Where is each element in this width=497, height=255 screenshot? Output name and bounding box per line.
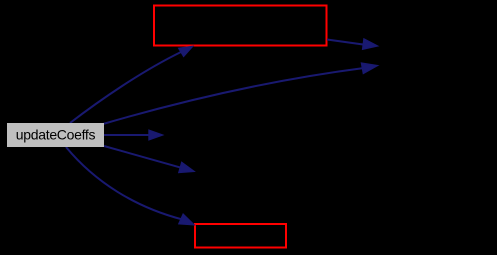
node: bottom red box (label hidden on black) (195, 224, 286, 248)
arrowhead: upper-right hidden node (361, 63, 378, 74)
edge: updateCoeffs to top red box (70, 52, 181, 123)
node: updateCoeffs (grey) (7, 123, 104, 147)
arrowhead: into top red box (178, 46, 193, 57)
arrowhead: right hidden node (362, 39, 378, 50)
edge: top red box to right hidden node (327, 40, 363, 45)
arrowhead: short horizontal (149, 130, 163, 140)
arrowhead: lower-middle hidden node (179, 162, 195, 173)
arrowhead: into bottom red box (179, 214, 195, 225)
node: top red box (label hidden on black) (154, 6, 327, 46)
edge: updateCoeffs to upper-right hidden node (103, 68, 364, 124)
edge: updateCoeffs to bottom red box (66, 147, 182, 219)
edge: updateCoeffs to lower-middle hidden node (104, 146, 181, 168)
svg-text:updateCoeffs: updateCoeffs (16, 127, 96, 143)
edge: updateCoeffs short horizontal to hidden node (104, 134, 150, 136)
